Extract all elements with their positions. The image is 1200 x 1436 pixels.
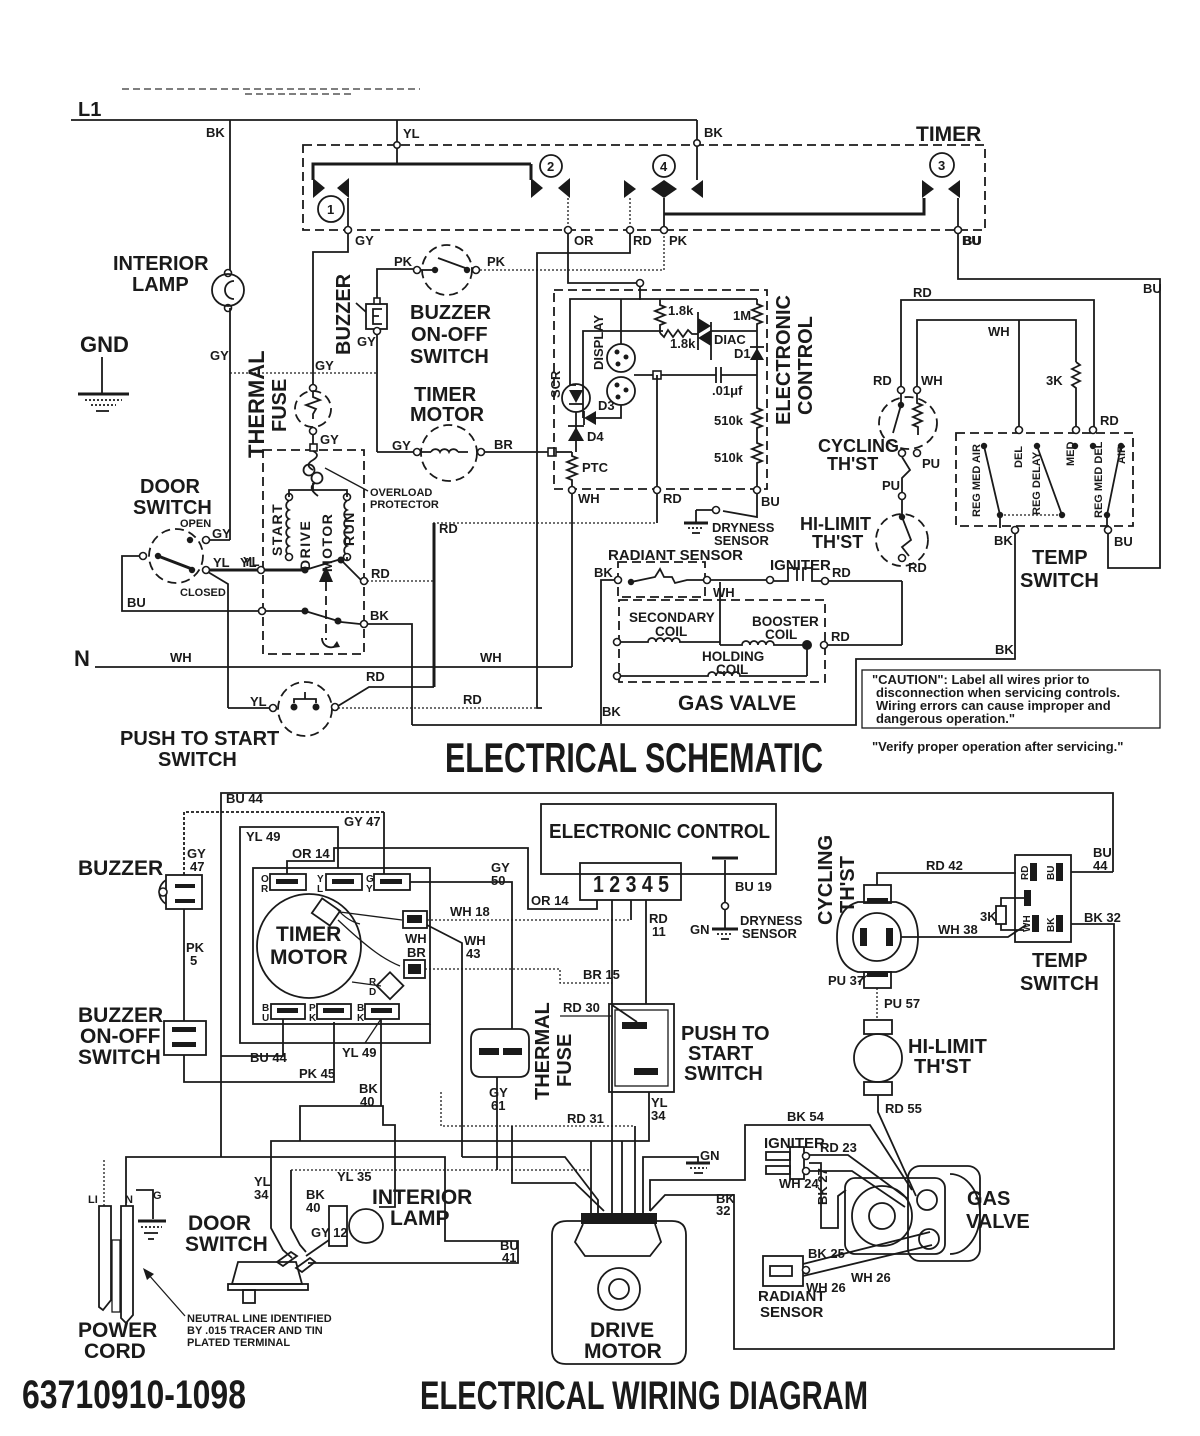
resistor 1.8k horizontal xyxy=(660,329,698,337)
push to start switch (wiring) xyxy=(609,1004,674,1092)
svg-text:BU: BU xyxy=(1143,281,1162,296)
svg-text:K: K xyxy=(309,1013,317,1024)
svg-text:PK: PK xyxy=(487,254,506,269)
faint dashed reference line xyxy=(122,89,420,94)
svg-text:THERMAL: THERMAL xyxy=(532,1002,554,1100)
svg-text:dangerous operation.": dangerous operation." xyxy=(876,711,1015,726)
svg-text:FUSE: FUSE xyxy=(269,379,291,432)
wire YL to push-to-start xyxy=(208,572,228,708)
svg-text:OPEN: OPEN xyxy=(180,518,211,530)
timer dashed box xyxy=(303,145,985,230)
svg-text:ELECTRONIC CONTROL: ELECTRONIC CONTROL xyxy=(549,821,770,843)
svg-text:CYCLING: CYCLING xyxy=(815,835,837,925)
svg-text:RD: RD xyxy=(439,521,458,536)
svg-text:PU: PU xyxy=(882,478,900,493)
svg-text:SWITCH: SWITCH xyxy=(158,749,237,771)
wire WH cycling rail xyxy=(917,320,1076,386)
svg-text:ON-OFF: ON-OFF xyxy=(411,324,488,346)
terminal 2 xyxy=(540,155,562,177)
svg-text:32: 32 xyxy=(716,1203,730,1218)
svg-text:REG MED DEL: REG MED DEL xyxy=(1093,441,1105,518)
svg-text:SWITCH: SWITCH xyxy=(133,497,212,519)
winding top bus xyxy=(289,483,347,497)
svg-text:START: START xyxy=(688,1043,753,1065)
svg-text:PU 57: PU 57 xyxy=(884,996,920,1011)
wire BR to electronic control xyxy=(485,451,548,453)
svg-text:BU: BU xyxy=(962,233,981,248)
svg-text:ELECTRONIC: ELECTRONIC xyxy=(773,295,795,425)
wire RD horizontal 523 xyxy=(433,522,657,524)
svg-text:ELECTRICAL WIRING DIAGRAM: ELECTRICAL WIRING DIAGRAM xyxy=(420,1374,868,1418)
svg-text:BU 19: BU 19 xyxy=(735,879,772,894)
svg-text:43: 43 xyxy=(466,946,480,961)
svg-text:COIL: COIL xyxy=(765,627,797,642)
terminal 3 xyxy=(930,153,954,177)
gas valve box (schematic) xyxy=(619,600,825,682)
svg-text:THERMAL: THERMAL xyxy=(244,350,269,458)
svg-text:1: 1 xyxy=(327,202,334,217)
svg-text:TEMP: TEMP xyxy=(1032,950,1088,972)
wire RD 30 / pin3 riser xyxy=(611,900,613,1216)
svg-text:OR 14: OR 14 xyxy=(292,846,330,861)
svg-text:PTC: PTC xyxy=(582,460,609,475)
svg-text:510k: 510k xyxy=(714,450,744,465)
svg-text:6: 6 xyxy=(593,1214,598,1224)
svg-text:BK: BK xyxy=(994,533,1013,548)
dryness sensor (wiring) xyxy=(712,857,738,860)
svg-text:BR: BR xyxy=(407,945,426,960)
svg-text:DIAC: DIAC xyxy=(714,332,746,347)
svg-text:3K: 3K xyxy=(1046,373,1063,388)
wire RD riser B from timer xyxy=(537,233,630,708)
svg-text:WH: WH xyxy=(988,324,1010,339)
svg-text:3K: 3K xyxy=(980,909,997,924)
svg-text:WH: WH xyxy=(578,491,600,506)
svg-text:GAS VALVE: GAS VALVE xyxy=(678,692,796,715)
wire BK bottom bus xyxy=(412,534,1015,725)
svg-text:YL: YL xyxy=(240,555,257,570)
svg-text:BK: BK xyxy=(370,608,389,623)
wire BK gas valve left xyxy=(601,580,615,724)
svg-text:GAS: GAS xyxy=(967,1188,1010,1210)
svg-text:BUZZER: BUZZER xyxy=(78,857,163,880)
timer internal bus 2 xyxy=(664,198,924,214)
svg-text:PU 37: PU 37 xyxy=(828,973,864,988)
svg-text:RD: RD xyxy=(366,669,385,684)
wire OR to electronic control xyxy=(568,233,640,283)
EC bus 2 xyxy=(583,331,663,418)
connector 1 2 3 4 5 xyxy=(580,863,681,900)
svg-text:GN: GN xyxy=(690,922,710,937)
svg-text:RD: RD xyxy=(1020,866,1031,880)
svg-text:CLOSED: CLOSED xyxy=(180,587,226,599)
svg-text:SWITCH: SWITCH xyxy=(684,1063,763,1085)
terminal 4 xyxy=(653,155,675,177)
svg-text:TEMP: TEMP xyxy=(1032,547,1088,569)
svg-text:YL 35: YL 35 xyxy=(337,1169,371,1184)
svg-text:WH 24: WH 24 xyxy=(779,1176,820,1191)
svg-text:FUSE: FUSE xyxy=(554,1034,576,1087)
svg-text:SENSOR: SENSOR xyxy=(742,926,798,941)
temp switch (schematic) xyxy=(956,433,1133,526)
svg-text:CYCLING: CYCLING xyxy=(818,436,899,456)
electronic control box (wiring) xyxy=(541,804,776,874)
svg-text:BU: BU xyxy=(1046,866,1057,880)
timer belt lines xyxy=(336,908,402,986)
svg-text:SCR: SCR xyxy=(548,370,563,398)
terminal 1 xyxy=(318,196,344,222)
svg-text:TH'ST: TH'ST xyxy=(827,454,878,474)
svg-text:50: 50 xyxy=(491,873,505,888)
wire BK motor switch down xyxy=(367,624,412,725)
svg-text:BUZZER: BUZZER xyxy=(410,302,492,324)
svg-text:DOOR: DOOR xyxy=(140,476,201,498)
resistor 1M xyxy=(752,299,762,327)
svg-text:GY: GY xyxy=(212,526,231,541)
svg-text:DRIVE: DRIVE xyxy=(590,1319,654,1342)
svg-text:GN: GN xyxy=(700,1148,720,1163)
svg-text:47: 47 xyxy=(190,859,204,874)
timer terminals on box edge xyxy=(345,227,352,234)
motor switch contacts BU-BK xyxy=(259,608,266,615)
svg-text:WH 18: WH 18 xyxy=(450,904,490,919)
resistor 3K xyxy=(1072,362,1080,430)
capacitor C1 xyxy=(634,374,757,376)
svg-text:TIMER: TIMER xyxy=(414,384,477,406)
svg-text:SWITCH: SWITCH xyxy=(1020,570,1099,592)
svg-text:34: 34 xyxy=(254,1187,269,1202)
svg-text:BU 44: BU 44 xyxy=(250,1050,288,1065)
svg-text:D1: D1 xyxy=(734,346,751,361)
svg-text:WH: WH xyxy=(713,585,735,600)
svg-text:ON-OFF: ON-OFF xyxy=(80,1025,161,1048)
svg-text:PLATED TERMINAL: PLATED TERMINAL xyxy=(187,1337,290,1349)
svg-text:RD: RD xyxy=(663,491,682,506)
svg-text:SENSOR: SENSOR xyxy=(714,533,770,548)
svg-text:BK 54: BK 54 xyxy=(787,1109,825,1124)
svg-text:40: 40 xyxy=(306,1200,320,1215)
svg-text:L: L xyxy=(317,884,323,895)
svg-text:11: 11 xyxy=(652,924,666,939)
svg-text:GY: GY xyxy=(210,348,229,363)
electronic control dashed box xyxy=(554,290,767,489)
svg-text:SWITCH: SWITCH xyxy=(78,1046,161,1069)
svg-text:BUZZER: BUZZER xyxy=(78,1004,163,1027)
svg-text:RD 42: RD 42 xyxy=(926,858,963,873)
run winding xyxy=(344,494,351,501)
svg-text:RD: RD xyxy=(831,629,850,644)
drive motor (wiring) xyxy=(552,1221,686,1364)
svg-text:BK: BK xyxy=(206,125,225,140)
resistor 510k upper xyxy=(752,375,762,433)
svg-text:"Verify proper operation after: "Verify proper operation after servicing… xyxy=(872,739,1123,754)
svg-text:1 2 3 4 5: 1 2 3 4 5 xyxy=(593,871,669,897)
centrifugal actuator xyxy=(319,566,333,582)
wire buzzer to on-off switch xyxy=(377,269,413,298)
svg-text:BU: BU xyxy=(1114,534,1133,549)
svg-text:BY .015 TRACER AND TIN: BY .015 TRACER AND TIN xyxy=(187,1325,323,1337)
svg-text:LAMP: LAMP xyxy=(132,274,189,296)
svg-text:OR: OR xyxy=(574,233,594,248)
wire RD riser A xyxy=(433,523,436,687)
svg-text:WH: WH xyxy=(480,650,502,665)
svg-text:K: K xyxy=(357,1013,365,1024)
svg-text:MOTOR: MOTOR xyxy=(270,946,348,969)
svg-text:63710910-1098: 63710910-1098 xyxy=(22,1373,246,1417)
svg-text:BUZZER: BUZZER xyxy=(333,273,355,355)
svg-text:4: 4 xyxy=(660,159,668,174)
svg-text:GY 47: GY 47 xyxy=(344,814,381,829)
wire YL door to motor xyxy=(210,569,258,572)
svg-text:CONTROL: CONTROL xyxy=(795,316,817,415)
timer box (wiring) xyxy=(253,868,430,1024)
svg-text:COIL: COIL xyxy=(655,624,687,639)
svg-text:START: START xyxy=(269,503,285,556)
svg-text:YL 49: YL 49 xyxy=(342,1045,376,1060)
wire RD gas valve to hi-limit xyxy=(827,644,902,646)
svg-text:RD: RD xyxy=(873,373,892,388)
EC top bus xyxy=(570,299,757,385)
svg-text:SWITCH: SWITCH xyxy=(1020,973,1099,995)
svg-text:PK 45: PK 45 xyxy=(299,1066,335,1081)
svg-text:YL: YL xyxy=(213,555,230,570)
svg-text:3: 3 xyxy=(938,158,945,173)
svg-text:REG MED AIR: REG MED AIR xyxy=(971,444,983,517)
svg-text:PROTECTOR: PROTECTOR xyxy=(370,499,439,511)
svg-text:WH 26: WH 26 xyxy=(806,1280,846,1295)
svg-text:R: R xyxy=(261,884,269,895)
svg-text:RD: RD xyxy=(913,285,932,300)
overload protector xyxy=(309,451,318,470)
svg-text:INTERIOR: INTERIOR xyxy=(113,253,209,275)
svg-text:SENSOR: SENSOR xyxy=(760,1304,824,1321)
svg-text:1.8k: 1.8k xyxy=(668,303,694,318)
svg-text:YL: YL xyxy=(403,126,420,141)
svg-text:GY: GY xyxy=(355,233,374,248)
svg-text:YL 49: YL 49 xyxy=(246,829,280,844)
svg-text:4: 4 xyxy=(605,1214,610,1224)
svg-text:WH 38: WH 38 xyxy=(938,922,978,937)
svg-text:1.8k: 1.8k xyxy=(670,336,696,351)
svg-text:Y: Y xyxy=(366,884,373,895)
svg-text:INTERIOR: INTERIOR xyxy=(372,1186,472,1209)
svg-text:GY: GY xyxy=(392,438,411,453)
svg-text:RD 55: RD 55 xyxy=(885,1101,922,1116)
svg-text:8: 8 xyxy=(648,1214,653,1224)
svg-text:BK 27: BK 27 xyxy=(815,1168,830,1205)
svg-text:BU: BU xyxy=(127,595,146,610)
svg-text:BK: BK xyxy=(602,704,621,719)
svg-text:D3: D3 xyxy=(598,398,615,413)
svg-text:IGNITER: IGNITER xyxy=(764,1135,825,1152)
svg-text:PUSH TO START: PUSH TO START xyxy=(120,728,279,750)
svg-text:61: 61 xyxy=(491,1098,505,1113)
svg-text:RD 31: RD 31 xyxy=(567,1111,604,1126)
svg-text:PUSH TO: PUSH TO xyxy=(681,1023,770,1045)
svg-text:BK: BK xyxy=(704,125,723,140)
svg-text:WH: WH xyxy=(170,650,192,665)
timer contact arrows T1 xyxy=(313,178,325,198)
svg-text:RD: RD xyxy=(633,233,652,248)
svg-text:OVERLOAD: OVERLOAD xyxy=(370,487,432,499)
temp switch (wiring) xyxy=(1015,855,1071,942)
svg-text:VALVE: VALVE xyxy=(966,1211,1030,1233)
wire GY dotted to thermal fuse xyxy=(230,372,378,374)
svg-text:ELECTRICAL SCHEMATIC: ELECTRICAL SCHEMATIC xyxy=(445,734,823,781)
dryness sensor (schematic) xyxy=(723,493,757,517)
svg-text:2: 2 xyxy=(584,1214,589,1224)
svg-text:LAMP: LAMP xyxy=(390,1207,450,1230)
wire DEL branch xyxy=(1018,320,1020,427)
svg-text:BK 32: BK 32 xyxy=(1084,910,1121,925)
svg-text:GY: GY xyxy=(320,432,339,447)
motor switch contacts YL-RD xyxy=(258,567,265,574)
svg-text:PU: PU xyxy=(922,456,940,471)
wire RD dotted to motor switch xyxy=(367,580,434,582)
svg-text:D4: D4 xyxy=(587,429,604,444)
svg-text:WH: WH xyxy=(405,931,427,946)
svg-text:WH 26: WH 26 xyxy=(851,1270,891,1285)
svg-text:DISPLAY: DISPLAY xyxy=(591,315,606,370)
drive motor switch box xyxy=(263,450,364,654)
wire PK dotted to terminal 4 xyxy=(480,234,664,270)
svg-text:SECONDARY: SECONDARY xyxy=(629,610,715,625)
svg-text:IGNITER: IGNITER xyxy=(770,557,831,574)
svg-text:GY 12: GY 12 xyxy=(311,1225,348,1240)
svg-text:YL: YL xyxy=(250,694,267,709)
svg-text:DOOR: DOOR xyxy=(188,1212,251,1235)
svg-text:BK: BK xyxy=(1046,917,1057,932)
svg-text:TH'ST: TH'ST xyxy=(914,1056,971,1078)
wire L1 rail xyxy=(71,119,697,121)
svg-text:POWER: POWER xyxy=(78,1319,157,1342)
svg-text:L1: L1 xyxy=(78,99,101,121)
wire BK 40 from timer xyxy=(380,1019,382,1106)
svg-text:3: 3 xyxy=(613,1214,618,1224)
diac D2 xyxy=(697,312,699,350)
svg-text:DEL: DEL xyxy=(1013,446,1025,468)
timer internal bus 1 xyxy=(313,164,531,180)
wire GY buzzer to timer motor xyxy=(376,334,378,452)
svg-text:WH: WH xyxy=(921,373,943,388)
svg-text:HI-LIMIT: HI-LIMIT xyxy=(908,1036,987,1058)
svg-text:RD: RD xyxy=(463,692,482,707)
wire GY terminal1 to buzzer branch xyxy=(313,233,348,388)
svg-text:LI: LI xyxy=(88,1194,98,1206)
svg-text:2: 2 xyxy=(547,159,554,174)
svg-text:GND: GND xyxy=(80,332,129,357)
svg-text:PK: PK xyxy=(669,233,688,248)
svg-text:5: 5 xyxy=(626,1214,631,1224)
start winding xyxy=(286,494,293,501)
svg-text:TIMER: TIMER xyxy=(276,923,341,946)
svg-text:TH'ST: TH'ST xyxy=(812,532,863,552)
svg-text:•: • xyxy=(633,1214,636,1224)
timer contact arrows T4 xyxy=(624,180,636,198)
svg-text:DRIVE: DRIVE xyxy=(297,520,313,570)
svg-text:RD: RD xyxy=(1100,413,1119,428)
timer contact arrows T3 xyxy=(922,180,934,198)
svg-text:RD: RD xyxy=(832,565,851,580)
svg-text:D: D xyxy=(369,987,376,998)
svg-text:OR 14: OR 14 xyxy=(531,893,569,908)
connector feed wires xyxy=(590,1141,592,1215)
svg-text:TH'ST: TH'ST xyxy=(837,856,859,913)
svg-text:CORD: CORD xyxy=(84,1340,146,1363)
svg-text:34: 34 xyxy=(651,1108,666,1123)
svg-text:PK: PK xyxy=(394,254,413,269)
svg-text:BK: BK xyxy=(995,642,1014,657)
svg-text:MOTOR: MOTOR xyxy=(410,404,485,426)
resistor PTC xyxy=(567,452,577,487)
svg-text:RD: RD xyxy=(908,560,927,575)
timer motor circle (wiring) xyxy=(257,894,361,998)
svg-text:44: 44 xyxy=(1093,858,1108,873)
svg-text:510k: 510k xyxy=(714,413,744,428)
svg-text:GY: GY xyxy=(357,334,376,349)
svg-text:BR 15: BR 15 xyxy=(583,967,620,982)
svg-text:TIMER: TIMER xyxy=(916,123,981,146)
svg-text:SWITCH: SWITCH xyxy=(185,1233,268,1256)
resistor 1.8k vertical xyxy=(655,299,665,329)
svg-text:5: 5 xyxy=(190,953,197,968)
svg-text:MOTOR: MOTOR xyxy=(584,1340,662,1363)
svg-text:N: N xyxy=(74,646,90,671)
timer contact arrows T2 xyxy=(531,178,543,198)
EC bottom terminals xyxy=(569,487,576,494)
svg-text:BU: BU xyxy=(761,494,780,509)
svg-text:RD: RD xyxy=(371,566,390,581)
wire RD from EC xyxy=(656,375,658,487)
svg-text:RD 30: RD 30 xyxy=(563,1000,600,1015)
svg-text:BR: BR xyxy=(494,437,513,452)
svg-text:1: 1 xyxy=(641,1214,646,1224)
caution note xyxy=(862,670,1160,728)
svg-text:RD 23: RD 23 xyxy=(820,1140,857,1155)
wire WH from EC to N xyxy=(571,493,573,667)
svg-text:SWITCH: SWITCH xyxy=(410,346,489,368)
svg-text:1M: 1M xyxy=(733,308,751,323)
svg-text:GY: GY xyxy=(315,358,334,373)
svg-text:BK: BK xyxy=(594,565,613,580)
svg-text:.01μf: .01μf xyxy=(712,383,743,398)
svg-text:REG DELAY: REG DELAY xyxy=(1031,451,1043,515)
resistor 510k lower xyxy=(752,433,762,487)
svg-text:U: U xyxy=(262,1013,269,1024)
svg-text:NEUTRAL LINE IDENTIFIED: NEUTRAL LINE IDENTIFIED xyxy=(187,1313,332,1325)
svg-text:HI-LIMIT: HI-LIMIT xyxy=(800,514,871,534)
svg-text:G: G xyxy=(153,1190,162,1202)
